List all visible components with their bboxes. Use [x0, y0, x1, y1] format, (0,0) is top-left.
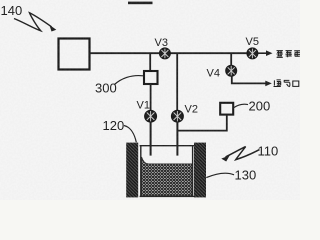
wire: main pipe V3 to V5 [170, 52, 247, 54]
liquid 130 fill [142, 157, 192, 196]
vessel 120: right heated wall [194, 143, 206, 198]
arrow squiggle to box 140 [14, 13, 52, 31]
valve V2 [172, 110, 184, 122]
leader 120 [124, 126, 136, 143]
valve V1 [145, 110, 157, 122]
arrow squiggle 110 to vessel [226, 147, 260, 160]
box 200 (sensor) [220, 103, 233, 115]
scan noise overlay [0, 0, 1, 1]
leader 200 [234, 104, 248, 107]
label: 蒸镀室 (deposition chamber) fake glyphs [277, 51, 301, 58]
wire: V4 to vent arrow [232, 76, 268, 83]
label: 通气口 (vent) fake glyphs [274, 80, 299, 87]
wire: main horizontal pipe from box 140 to V3 [90, 52, 160, 54]
valve V4 [226, 65, 237, 76]
valve V3 [160, 48, 171, 59]
branch pipe 1 (to V1) from main line [149, 53, 151, 71]
wire: V5 to deposition-chamber arrow [258, 52, 269, 54]
vessel 120: left heated wall [126, 143, 138, 198]
branch pipe 2 (to V2) from main line [176, 53, 178, 110]
leader 300 [115, 76, 144, 85]
box 140 (source) [59, 39, 90, 70]
pipe V1 into crucible [150, 122, 152, 156]
crucible outline [140, 146, 194, 197]
box 300 (flow controller) [144, 71, 158, 84]
wire: box 200 down and left to pipe 2 [177, 115, 226, 131]
valve V5 [247, 48, 258, 59]
figure top bar [128, 2, 153, 5]
leader 130 [206, 173, 234, 177]
valve V4 branch [230, 53, 232, 65]
pipe box300 to V1 [150, 84, 152, 111]
pipe V2 into crucible [176, 122, 178, 156]
